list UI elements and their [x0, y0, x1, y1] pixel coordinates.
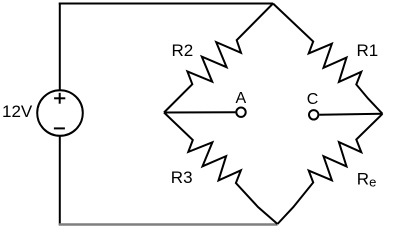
resistor Re (bottom-right arm zigzag) — [278, 114, 383, 224]
wire left upper (source + to top corner) — [59, 3, 61, 91]
wire left lower (source - to bottom corner) — [59, 136, 61, 226]
resistor R1 (top-right arm zigzag) — [273, 4, 383, 114]
svg-text:R3: R3 — [171, 168, 193, 187]
svg-text:A: A — [236, 90, 247, 107]
svg-text:12V: 12V — [2, 102, 33, 121]
wire top from source to bridge top vertex — [59, 3, 273, 5]
wire to node A — [164, 111, 235, 113]
voltage source V1 circle — [37, 90, 83, 136]
voltage source minus sign — [54, 127, 65, 129]
node C terminal circle — [309, 110, 318, 119]
voltage source plus sign — [54, 93, 65, 104]
svg-text:R2: R2 — [172, 41, 194, 60]
wire bottom (gray) from bottom corner to bridge bottom vertex — [59, 223, 278, 225]
svg-text:R1: R1 — [357, 41, 379, 60]
node A terminal circle — [236, 108, 245, 117]
resistor R2 (top-left arm zigzag) — [164, 4, 273, 113]
wire from node C to right vertex — [319, 114, 382, 115]
resistor R3 (bottom-left arm zigzag) — [164, 113, 278, 225]
svg-text:C: C — [307, 91, 319, 108]
